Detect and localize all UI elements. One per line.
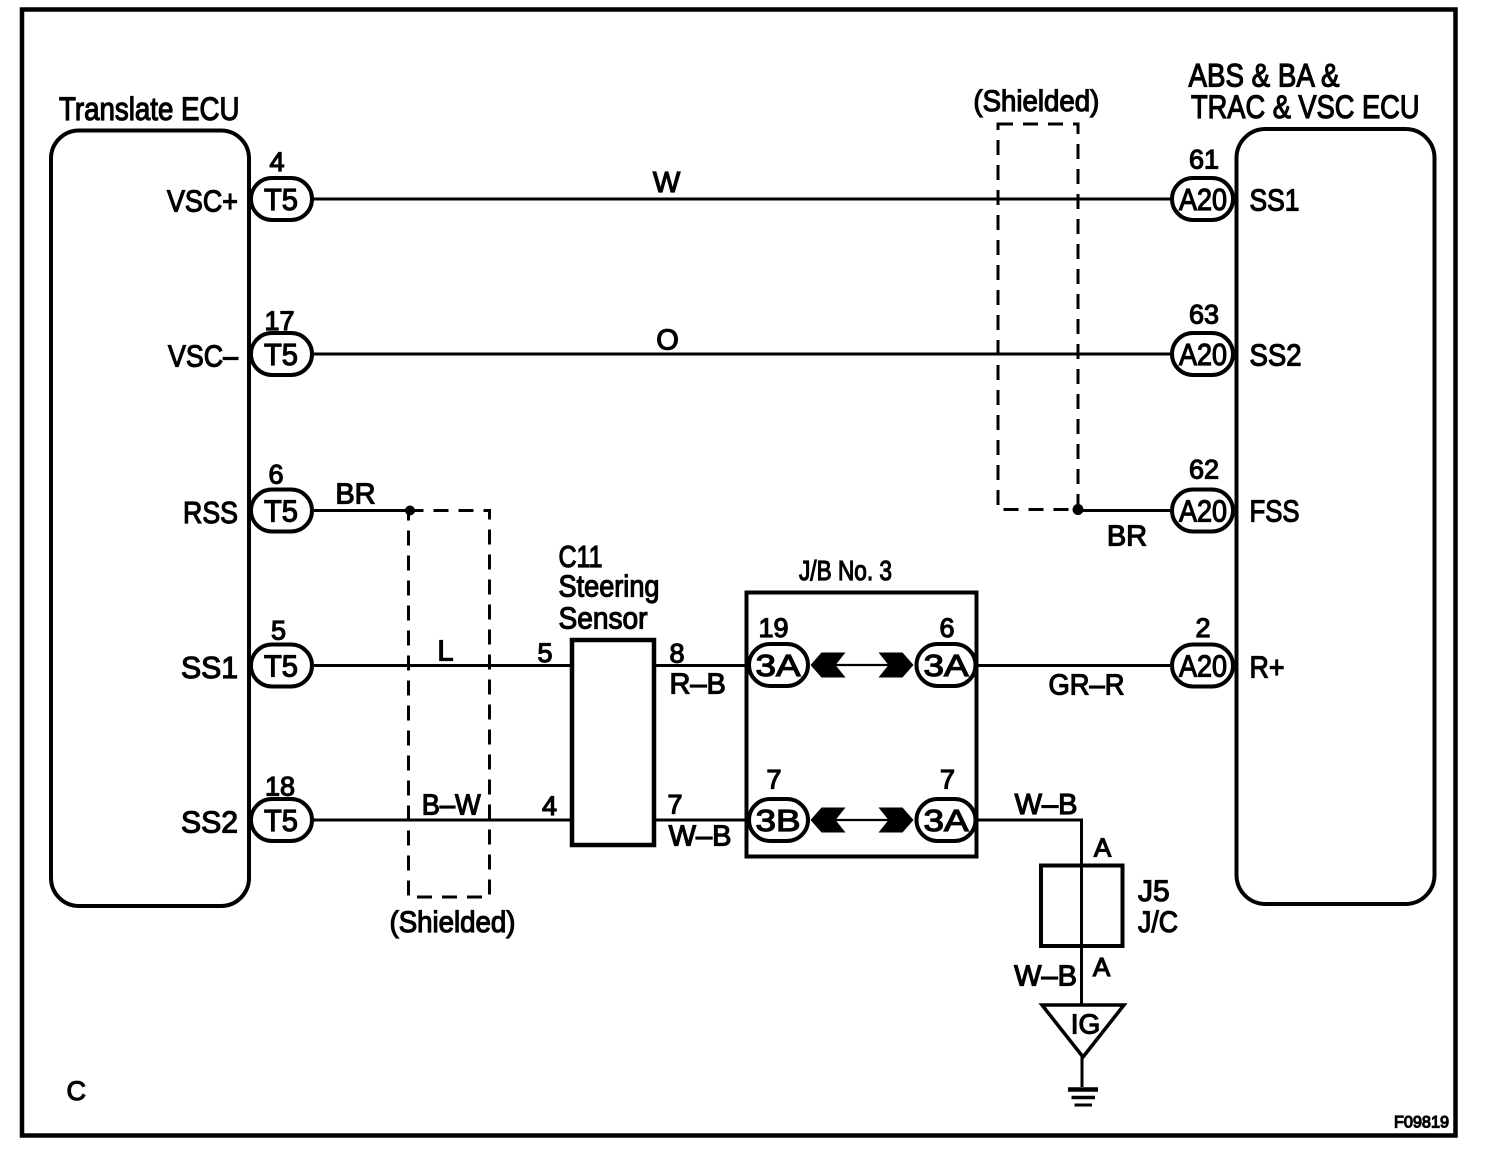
arrow right row 2 [879, 808, 914, 833]
svg-text:B–W: B–W [422, 790, 482, 822]
svg-text:J5: J5 [1138, 875, 1170, 908]
wire IG to ground [1081, 1057, 1084, 1087]
svg-text:3A: 3A [924, 648, 969, 683]
svg-text:IG: IG [1071, 1009, 1101, 1040]
svg-text:A20: A20 [1179, 337, 1227, 372]
connector A20 pin 63 (SS2) [1172, 333, 1233, 375]
junction connector J5 J/C box [1041, 866, 1123, 947]
junction block J/B No.3 box [747, 593, 977, 857]
svg-text:Steering: Steering [559, 569, 660, 604]
svg-text:VSC+: VSC+ [167, 184, 238, 219]
svg-text:J/C: J/C [1138, 906, 1178, 939]
svg-text:R–B: R–B [669, 669, 725, 701]
svg-text:63: 63 [1189, 300, 1219, 330]
svg-text:VSC–: VSC– [168, 339, 239, 374]
svg-text:6: 6 [939, 613, 954, 643]
wire BR (shield junction to FSS) [1078, 509, 1172, 512]
svg-text:3B: 3B [756, 803, 801, 838]
svg-text:T5: T5 [264, 803, 298, 838]
svg-text:W: W [653, 167, 681, 199]
ignition IG triangle [1042, 1005, 1124, 1057]
steering sensor C11 box [572, 640, 654, 845]
wire W (VSC+ to SS1) [312, 198, 1172, 201]
svg-text:GR–R: GR–R [1049, 670, 1125, 702]
connector T5 pin 5 (SS1) [251, 645, 312, 687]
svg-text:BR: BR [335, 479, 375, 511]
junction node on RSS wire [405, 506, 415, 516]
svg-text:7: 7 [667, 790, 682, 820]
svg-text:19: 19 [758, 613, 788, 643]
svg-text:A20: A20 [1179, 649, 1227, 684]
arrow link line row 1 [834, 664, 890, 666]
svg-text:O: O [656, 325, 679, 357]
connector 3A pin 6 [917, 644, 976, 686]
junction node on FSS wire [1073, 504, 1084, 515]
svg-text:(Shielded): (Shielded) [973, 85, 1099, 118]
svg-text:C: C [67, 1076, 87, 1106]
wire GR-R (J/B to R+) [977, 664, 1172, 667]
arrow left row 1 [811, 653, 846, 678]
svg-text:L: L [437, 636, 453, 668]
svg-text:3A: 3A [756, 648, 801, 683]
arrow left row 2 [811, 808, 846, 833]
svg-text:BR: BR [1107, 521, 1147, 553]
wire BR (RSS to shield junction) [312, 509, 410, 512]
svg-text:SS2: SS2 [181, 805, 238, 840]
connector T5 pin 18 (SS2) [251, 799, 312, 841]
connector T5 pin 4 (VSC+) [251, 178, 312, 220]
svg-text:Sensor: Sensor [559, 601, 648, 636]
connector 3A pin 7 [917, 799, 976, 841]
svg-text:A: A [1093, 952, 1111, 982]
connector 3B pin 7 [749, 799, 808, 841]
svg-text:W–B: W–B [1015, 789, 1078, 821]
svg-text:(Shielded): (Shielded) [390, 906, 516, 939]
svg-text:FSS: FSS [1250, 494, 1300, 529]
svg-text:F09819: F09819 [1394, 1113, 1449, 1132]
svg-text:8: 8 [669, 639, 684, 669]
svg-text:17: 17 [264, 306, 294, 336]
svg-text:4: 4 [269, 147, 284, 177]
shield dashed box right (Shielded) [998, 124, 1078, 510]
svg-text:7: 7 [766, 765, 781, 795]
svg-text:SS1: SS1 [181, 650, 238, 685]
svg-text:62: 62 [1189, 455, 1219, 485]
svg-text:SS2: SS2 [1250, 338, 1302, 373]
connector T5 pin 6 (RSS) [251, 490, 312, 532]
svg-text:RSS: RSS [183, 495, 238, 530]
svg-text:Translate ECU: Translate ECU [59, 91, 240, 127]
connector A20 pin 61 (SS1) [1172, 178, 1233, 220]
svg-text:A: A [1094, 833, 1112, 863]
wire W-B (J/B to J5 junction, horizontal then down) [977, 820, 1082, 1004]
svg-text:6: 6 [268, 460, 283, 490]
svg-text:3A: 3A [924, 803, 969, 838]
shield dashed box left (Shielded) [409, 511, 490, 898]
svg-text:W–B: W–B [669, 821, 732, 853]
svg-text:2: 2 [1195, 613, 1210, 643]
connector body ABS & BA & TRAC & VSC ECU [1237, 129, 1435, 904]
connector 3A pin 19 [749, 644, 808, 686]
svg-text:T5: T5 [264, 494, 298, 529]
wire W-B (steering sensor to J/B) [654, 819, 749, 822]
svg-text:T5: T5 [264, 337, 298, 372]
svg-text:T5: T5 [264, 649, 298, 684]
svg-text:61: 61 [1189, 145, 1219, 175]
wire O (VSC- to SS2) [312, 353, 1172, 356]
svg-text:T5: T5 [264, 182, 298, 217]
connector body Translate ECU [51, 131, 249, 907]
connector T5 pin 17 (VSC-) [251, 333, 312, 375]
svg-text:4: 4 [542, 791, 557, 821]
svg-text:J/B No. 3: J/B No. 3 [799, 555, 892, 586]
svg-text:SS1: SS1 [1250, 183, 1300, 218]
svg-text:A20: A20 [1179, 494, 1227, 529]
svg-text:TRAC & VSC ECU: TRAC & VSC ECU [1191, 89, 1420, 125]
svg-text:5: 5 [271, 615, 286, 645]
svg-text:A20: A20 [1179, 182, 1227, 217]
wire L (SS1 to steering sensor) [312, 664, 572, 667]
arrow link line row 2 [834, 819, 890, 821]
wire B-W (SS2 to steering sensor) [312, 819, 572, 822]
connector A20 pin 62 (FSS) [1172, 490, 1233, 532]
svg-text:18: 18 [265, 772, 295, 802]
svg-text:W–B: W–B [1014, 961, 1077, 993]
svg-text:R+: R+ [1250, 650, 1285, 685]
svg-text:7: 7 [940, 765, 955, 795]
wire R-B (steering sensor to J/B) [654, 664, 749, 667]
ground symbol [1068, 1087, 1098, 1092]
connector A20 pin 2 (R+) [1172, 645, 1233, 687]
svg-text:5: 5 [537, 638, 552, 668]
arrow right row 1 [879, 653, 914, 678]
